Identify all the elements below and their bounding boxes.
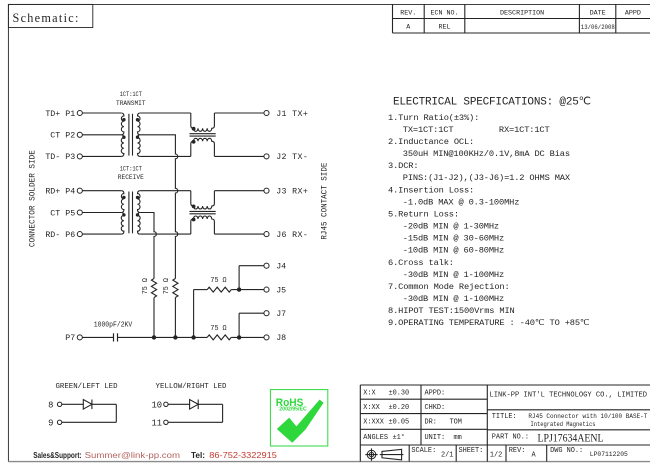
svg-text:9: 9 [48, 419, 53, 429]
svg-text:REL: REL [438, 24, 450, 32]
svg-text:RJ45 Connector with 10/100 BAS: RJ45 Connector with 10/100 BASE-T [528, 413, 647, 420]
terminal J8 [264, 334, 286, 343]
svg-text:CHKD:: CHKD: [425, 404, 446, 412]
wire P2 to T1 [82, 134, 121, 136]
svg-text:-15dB MIN @ 30-60MHz: -15dB MIN @ 30-60MHz [403, 234, 504, 244]
wire J5 branch to R3 [194, 289, 208, 291]
company name [490, 391, 648, 399]
svg-text:YELLOW/RIGHT LED: YELLOW/RIGHT LED [156, 383, 228, 391]
wire T1 centre tap to R2 [140, 135, 178, 279]
svg-text:8.HIPOT TEST:1500Vrms MIN: 8.HIPOT TEST:1500Vrms MIN [388, 306, 515, 316]
svg-text:-1.0dB MAX @ 0.3-100MHz: -1.0dB MAX @ 0.3-100MHz [403, 197, 519, 207]
svg-text:mm: mm [454, 434, 462, 442]
svg-text:DR:: DR: [425, 418, 437, 426]
svg-text:Integrated Magnetics: Integrated Magnetics [531, 421, 596, 428]
wire T2 bottom to choke L2 [140, 233, 191, 235]
wire 8 to D1 [62, 403, 84, 405]
svg-text:-10dB MIN @ 60-80MHz: -10dB MIN @ 60-80MHz [403, 246, 504, 256]
svg-text:TD+ P1: TD+ P1 [45, 110, 75, 119]
wire L1 to J1 [214, 112, 264, 114]
svg-text:1.Turn Ratio(±3%):: 1.Turn Ratio(±3%): [388, 113, 479, 123]
svg-text:11: 11 [152, 419, 163, 429]
svg-text:1000pF/2KV: 1000pF/2KV [94, 322, 133, 330]
junction J4/J5 [237, 287, 241, 291]
svg-text:RECEIVE: RECEIVE [118, 174, 144, 182]
wire P6 to T2 [82, 233, 121, 235]
svg-text:13/06/2008: 13/06/2008 [581, 24, 615, 31]
svg-text:RX=1CT:1CT: RX=1CT:1CT [499, 125, 550, 135]
wire L2 to J3 [214, 190, 264, 192]
choke L2 [190, 191, 216, 234]
wire L1 to J2 [214, 155, 264, 157]
svg-text:4.Insertion Loss:: 4.Insertion Loss: [388, 185, 474, 195]
terminal 10 [152, 401, 169, 411]
svg-text:2/1: 2/1 [441, 452, 453, 460]
wire J5 branch vertical [193, 290, 195, 338]
svg-text:±0.05: ±0.05 [389, 418, 410, 426]
resistor R2 75ohm [163, 278, 178, 298]
bottom row of title block [409, 445, 628, 462]
svg-text:TITLE:: TITLE: [492, 413, 517, 421]
junction at J5 branch [191, 335, 195, 339]
svg-text:DATE: DATE [590, 10, 606, 18]
svg-text:Summer@link-pp.com: Summer@link-pp.com [85, 451, 181, 460]
wire up to J7 [239, 313, 264, 337]
svg-text:J2 TX-: J2 TX- [276, 153, 308, 162]
wire P4 to T2 [82, 190, 121, 192]
terminal P6 [45, 231, 82, 240]
choke L1 [190, 113, 216, 156]
wire R2 to bottom [174, 298, 176, 338]
RoHS logo [270, 390, 327, 446]
label YELLOW/RIGHT LED [156, 383, 228, 391]
wire L2 to J6 [214, 233, 264, 235]
wire T2 top to choke L2 [140, 190, 191, 192]
svg-text:J1 TX+: J1 TX+ [276, 110, 308, 119]
svg-text:LINK-PP INT'L TECHNOLOGY CO.,: LINK-PP INT'L TECHNOLOGY CO., LIMITED [490, 391, 648, 399]
svg-text:6.Cross talk:: 6.Cross talk: [388, 258, 454, 268]
wire 10 to D2 [168, 403, 190, 405]
electrical specifications text [388, 97, 591, 329]
title block grid [360, 385, 650, 462]
terminal 8 [48, 401, 62, 411]
svg-text:ELECTRICAL SPECFICATIONS: @25℃: ELECTRICAL SPECFICATIONS: @25℃ [393, 97, 591, 109]
svg-text:2.Inductance OCL:: 2.Inductance OCL: [388, 137, 474, 147]
svg-text:SCALE:: SCALE: [411, 447, 436, 455]
wire D2 to 11 [168, 404, 223, 422]
svg-text:Sales&Support:: Sales&Support: [33, 451, 81, 460]
terminal J3 [264, 188, 308, 197]
terminal J7 [264, 310, 286, 319]
svg-text:7.Common Mode Rejection:: 7.Common Mode Rejection: [388, 282, 510, 292]
svg-text:CT P2: CT P2 [50, 132, 75, 141]
svg-text:RD+ P4: RD+ P4 [45, 188, 75, 197]
label RJ45 CONTACT SIDE [321, 162, 330, 239]
terminal P7 [65, 334, 82, 343]
diode D2 [190, 400, 199, 410]
terminal P2 [50, 132, 82, 141]
terminal 9 [48, 419, 62, 429]
svg-text:Tel:: Tel: [191, 451, 205, 460]
svg-text:CONNECTOR SOLDER SIDE: CONNECTOR SOLDER SIDE [27, 150, 37, 247]
wire up to J4 [239, 266, 264, 290]
terminal 11 [152, 419, 169, 429]
wire T1 bottom to choke L1 [140, 155, 191, 157]
svg-text:PART NO.:: PART NO.: [492, 433, 529, 441]
wire T2 centre tap to R1 [140, 213, 156, 279]
svg-text:APPD: APPD [625, 10, 641, 18]
junction at R2 bottom [173, 335, 177, 339]
svg-text:86-752-3322915: 86-752-3322915 [209, 451, 277, 460]
wire P1 to T1 [82, 112, 121, 114]
svg-text:±0.30: ±0.30 [389, 390, 410, 398]
svg-text:-30dB MIN @ 1-100MHz: -30dB MIN @ 1-100MHz [403, 294, 504, 304]
terminal J4 [264, 263, 286, 272]
schematic label box [8, 4, 92, 27]
svg-text:-20dB MIN @ 1-30MHz: -20dB MIN @ 1-30MHz [403, 222, 499, 232]
terminal P3 [45, 153, 82, 162]
svg-text:TOM: TOM [450, 418, 462, 426]
terminal P5 [50, 209, 82, 218]
svg-text:RD- P6: RD- P6 [45, 231, 75, 240]
label 1CT:1CT receive [120, 166, 142, 174]
svg-text:DESCRIPTION: DESCRIPTION [500, 10, 544, 18]
wire C1 to J8 (common) [118, 336, 264, 338]
wire P7 to C1 [82, 336, 113, 338]
svg-text:SHEET:: SHEET: [459, 447, 484, 455]
svg-text:Schematic:: Schematic: [13, 11, 80, 25]
junction at R1 bottom [152, 335, 156, 339]
svg-text:X:XX: X:XX [363, 404, 380, 412]
svg-text:J5: J5 [276, 286, 286, 295]
svg-text:REV.: REV. [400, 10, 416, 18]
svg-text:350uH MIN@100KHz/0.1V,8mA DC B: 350uH MIN@100KHz/0.1V,8mA DC Bias [403, 149, 570, 159]
svg-text:J8: J8 [276, 334, 286, 343]
terminal P1 [45, 110, 82, 119]
svg-text:DWG NO.:: DWG NO.: [550, 447, 583, 455]
junction J7/J8 [237, 335, 241, 339]
svg-text:J7: J7 [276, 310, 286, 319]
svg-text:RJ45 CONTACT SIDE: RJ45 CONTACT SIDE [321, 162, 330, 239]
resistor R4 75ohm [207, 325, 231, 340]
part no field [492, 430, 604, 444]
svg-text:J3 RX+: J3 RX+ [276, 188, 308, 197]
svg-text:PINS:(J1-J2),(J3-J6)=1.2 OHMS: PINS:(J1-J2),(J3-J6)=1.2 OHMS MAX [403, 173, 571, 183]
svg-text:X:XXX: X:XXX [363, 418, 385, 426]
wire D1 to 9 [62, 404, 117, 422]
diode D1 [83, 400, 92, 410]
svg-text:-30dB MIN @ 1-100MHz: -30dB MIN @ 1-100MHz [403, 270, 504, 280]
terminal P4 [45, 188, 82, 197]
wire P3 to T1 [82, 155, 121, 157]
svg-text:1CT:1CT: 1CT:1CT [120, 91, 142, 99]
wire R1 to bottom [153, 298, 155, 338]
svg-text:75 Ω: 75 Ω [163, 278, 171, 295]
svg-text:1/2: 1/2 [490, 452, 502, 460]
svg-text:TX=1CT:1CT: TX=1CT:1CT [403, 125, 454, 135]
svg-text:10: 10 [152, 401, 163, 411]
svg-text:APPD:: APPD: [425, 390, 446, 398]
svg-text:P7: P7 [65, 334, 75, 343]
svg-text:2002/95/EC: 2002/95/EC [279, 406, 307, 412]
svg-text:75 Ω: 75 Ω [210, 325, 227, 333]
svg-text:UNIT:: UNIT: [425, 434, 446, 442]
svg-text:REV:: REV: [509, 447, 526, 455]
terminal J5 [264, 286, 286, 295]
terminal J6 [264, 231, 308, 240]
wire R3 to J5 [231, 289, 264, 291]
title field [492, 413, 648, 428]
svg-text:ANGLES: ANGLES [363, 434, 388, 442]
resistor R1 75ohm [142, 278, 156, 298]
terminal J1 [264, 110, 308, 119]
label RECEIVE [118, 174, 144, 182]
svg-text:J6 RX-: J6 RX- [276, 231, 308, 240]
svg-text:75 Ω: 75 Ω [142, 278, 150, 295]
svg-text:8: 8 [48, 401, 53, 411]
svg-text:75 Ω: 75 Ω [210, 277, 227, 285]
projection symbol [365, 448, 403, 460]
svg-text:LPJ17634AENL: LPJ17634AENL [538, 430, 604, 444]
svg-text:ECN NO.: ECN NO. [430, 10, 458, 18]
label 1CT:1CT transmit [120, 91, 142, 99]
svg-text:GREEN/LEFT LED: GREEN/LEFT LED [55, 383, 118, 391]
svg-text:LP07112205: LP07112205 [590, 451, 628, 458]
resistor R3 75ohm [207, 277, 231, 292]
svg-text:TRANSMIT: TRANSMIT [116, 100, 146, 108]
svg-text:J4: J4 [276, 263, 286, 272]
svg-text:5.Return Loss:: 5.Return Loss: [388, 209, 459, 219]
label TRANSMIT [116, 100, 146, 108]
footer sales line [33, 451, 277, 460]
transformer T2 [121, 191, 140, 234]
revision table [393, 4, 650, 33]
wire P5 to T2 [82, 212, 121, 214]
label GREEN/LEFT LED [55, 383, 118, 391]
svg-text:1CT:1CT: 1CT:1CT [120, 166, 142, 174]
svg-text:3.DCR:: 3.DCR: [388, 161, 418, 171]
transformer T1 [121, 113, 140, 156]
label CONNECTOR SOLDER SIDE [27, 150, 37, 247]
svg-text:CT P5: CT P5 [50, 209, 75, 218]
svg-text:X:X: X:X [363, 390, 376, 398]
capacitor C1 1000pF/2KV [94, 322, 133, 342]
svg-text:TD- P3: TD- P3 [45, 153, 75, 162]
svg-text:±1°: ±1° [393, 433, 405, 442]
svg-text:9.OPERATING TEMPERATURE : -40℃: 9.OPERATING TEMPERATURE : -40℃ TO +85℃ [388, 318, 590, 328]
svg-text:±0.20: ±0.20 [389, 404, 410, 412]
wire T1 top to choke L1 [140, 112, 191, 114]
terminal J2 [264, 153, 308, 162]
